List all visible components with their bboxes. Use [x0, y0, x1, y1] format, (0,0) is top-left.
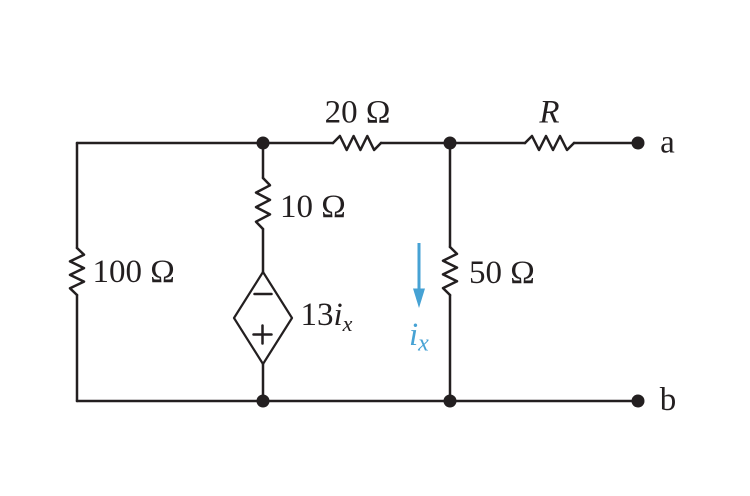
- resistor 10 ohm zigzag: [256, 178, 270, 229]
- svg-text:20 Ω: 20 Ω: [325, 95, 391, 131]
- wire left branch upper: [76, 143, 79, 248]
- svg-text:a: a: [660, 125, 675, 161]
- current arrow ix: [413, 243, 425, 308]
- wire left branch lower: [76, 295, 79, 401]
- wire middle branch lower: [262, 364, 265, 401]
- dependent source U1 diamond: [234, 272, 292, 364]
- terminal b dot: [632, 395, 645, 408]
- resistor R zigzag: [525, 136, 574, 150]
- wire top rail right to terminal a: [574, 142, 638, 145]
- node junction bottom middle: [257, 395, 270, 408]
- dependent source minus sign: [255, 293, 272, 296]
- wire right branch lower: [449, 295, 452, 401]
- wire right branch upper: [449, 143, 452, 247]
- resistor 100 ohm zigzag: [70, 248, 84, 295]
- wire middle branch between resistor and source: [262, 229, 265, 272]
- resistor 20 ohm zigzag: [333, 136, 381, 150]
- wire top rail left: [77, 142, 333, 145]
- svg-text:13ix: 13ix: [301, 297, 353, 336]
- svg-text:50 Ω: 50 Ω: [469, 255, 535, 291]
- svg-text:10 Ω: 10 Ω: [280, 189, 346, 225]
- node junction bottom right: [444, 395, 457, 408]
- wire bottom rail: [77, 400, 638, 403]
- wire top rail middle: [381, 142, 525, 145]
- svg-text:100 Ω: 100 Ω: [93, 254, 175, 290]
- svg-text:ix: ix: [409, 317, 429, 357]
- terminal a dot: [632, 137, 645, 150]
- node junction top middle: [257, 137, 270, 150]
- node junction top right: [444, 137, 457, 150]
- svg-text:R: R: [538, 95, 559, 131]
- dependent source plus sign: [254, 326, 272, 344]
- svg-text:b: b: [660, 382, 677, 418]
- resistor 50 ohm zigzag: [443, 247, 457, 295]
- wire middle branch upper: [262, 143, 265, 178]
